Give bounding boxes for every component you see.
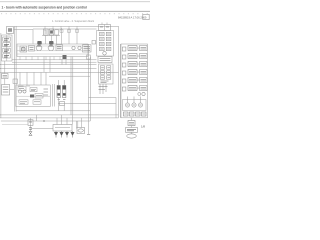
accumulator drain marks xyxy=(58,99,66,101)
bottom bus wire B2 xyxy=(0,117,119,119)
RB motor m3 mark xyxy=(139,104,141,106)
check valve block CV1 xyxy=(29,46,35,52)
Vs4 marks xyxy=(20,102,27,103)
RB bottom connector rect b2 xyxy=(130,112,135,116)
frame rail right third vertical xyxy=(115,98,117,118)
accumulator A1 gas cap xyxy=(57,86,60,90)
RB row r4 coil xyxy=(140,70,148,75)
header top rule xyxy=(0,1,150,3)
frame rail right inner vertical xyxy=(119,44,121,118)
RB row r3 coil xyxy=(140,62,148,67)
SB solenoid dark blob xyxy=(30,95,34,98)
drop wire d6 xyxy=(72,115,74,125)
bottom bus wire B1 xyxy=(0,114,119,116)
RB bottom connector rect b1 xyxy=(124,112,129,116)
tank symbol t1 xyxy=(54,132,58,136)
drop wire d3 xyxy=(56,118,58,125)
riser wires above stack xyxy=(102,23,107,25)
wire from B1 to main grid xyxy=(14,30,34,44)
K2 row a mark xyxy=(101,67,110,69)
riser wire R5 xyxy=(68,28,70,44)
mid horizontal line B xyxy=(89,97,117,99)
feeder wires into suspension block xyxy=(20,72,46,85)
riser R4 tick box xyxy=(60,30,63,33)
mid horizontal line A xyxy=(58,103,116,105)
wire stack bottom to L1 xyxy=(4,61,6,74)
center-right solenoid stack frame K1 xyxy=(97,31,114,57)
RB row r5 marks xyxy=(129,79,136,81)
left sensor cluster L1 box xyxy=(2,74,8,79)
svg-text:1/8: 1/8 xyxy=(141,124,145,128)
relief valve RV1 xyxy=(20,46,27,52)
suspension block SB frame xyxy=(16,85,51,107)
pilot port box left of stack xyxy=(92,41,96,45)
PS inner mark xyxy=(29,121,32,123)
RB row circle xyxy=(142,92,145,95)
K2 drop cluster marks xyxy=(99,87,108,90)
motor feed ticks xyxy=(128,97,141,103)
accumulator bottom wires xyxy=(59,98,64,111)
valve S4 spool marks xyxy=(4,56,9,57)
L2 valve marks xyxy=(3,87,9,92)
drop wire d5 xyxy=(66,118,68,125)
RB motor circle m3 xyxy=(138,103,142,107)
RB row r3 marks xyxy=(129,63,136,65)
RB motor m2 mark xyxy=(133,104,135,106)
center-right stack top box T1 xyxy=(99,25,111,31)
selector valve block SV1 xyxy=(83,45,92,52)
drop wire d7 xyxy=(76,121,78,128)
K1a mark xyxy=(100,33,110,35)
SB valve Vs4 xyxy=(19,100,28,104)
filter F1 feed wire xyxy=(30,130,32,132)
K2 bottom valve marks xyxy=(101,81,109,83)
RB row r2 coil marks xyxy=(141,55,147,57)
accumulator A1 bladder mark xyxy=(57,93,60,95)
manifold M1 left stack frame xyxy=(2,35,12,61)
frame rail mid inner vertical xyxy=(89,57,91,122)
filter F1 cross symbol xyxy=(29,132,32,136)
right chain ellipse RC3 xyxy=(127,134,137,138)
connector marks row xyxy=(124,113,145,115)
RB pilot column item c1 xyxy=(122,47,126,51)
L2 connecting wire xyxy=(10,89,15,91)
suspension block bottom wire xyxy=(16,110,91,112)
drop wire d1 xyxy=(30,118,32,128)
pilot valve mounting plate line xyxy=(42,35,60,37)
RB row r5 coil xyxy=(140,78,148,83)
SB valve Vs1 xyxy=(18,87,26,91)
small valve under PS xyxy=(29,128,32,130)
bus wire H2 xyxy=(0,64,97,66)
left edge stub wires xyxy=(0,65,1,115)
small valve box under accumulators xyxy=(60,102,65,106)
PV1 internal marks xyxy=(44,31,47,33)
K2 drop cluster below xyxy=(100,84,106,94)
SB pump circle Ps1 xyxy=(18,90,21,93)
left valve cluster L2 box xyxy=(2,85,10,96)
SB valve Vs2 xyxy=(30,88,37,92)
SB valve Vs5 xyxy=(33,100,41,104)
dark block under manifold xyxy=(63,55,67,59)
valve S3 spool marks xyxy=(4,50,9,51)
wire into pilot supply box xyxy=(2,124,28,126)
right chain wires xyxy=(131,118,133,134)
pilot valve PV2 dark core xyxy=(50,30,53,33)
gauge circle G2 xyxy=(78,46,81,49)
tank symbol t3 xyxy=(65,132,69,136)
J1 marks xyxy=(100,59,111,61)
RB row r4 coil marks xyxy=(141,71,147,73)
mid vertical connectors xyxy=(44,57,66,73)
check valve CV1 marks xyxy=(30,48,34,50)
RB row r1 coil xyxy=(140,46,148,51)
SB inner line xyxy=(16,95,51,97)
RB bottom connector rect b3 xyxy=(136,112,141,116)
K2 row c xyxy=(100,76,104,79)
SB top label marks xyxy=(18,85,31,87)
tank pump riser wire xyxy=(78,118,82,128)
right chain valve RC1 xyxy=(128,121,135,126)
valve S2 spool marks xyxy=(4,44,9,45)
RB valve row r1 body xyxy=(128,46,137,51)
pilot valve box PV2 xyxy=(49,29,54,35)
frame rail left outer vertical xyxy=(13,26,15,111)
rail junction box xyxy=(13,79,18,84)
accumulator rail vertical pair xyxy=(53,84,55,107)
manifold inner line upper xyxy=(17,50,88,52)
RB bottom connector rect b4 xyxy=(142,112,147,116)
comb tick connectors below manifold xyxy=(20,57,60,60)
tank pump box TP xyxy=(77,128,85,134)
RB row circle second xyxy=(138,93,141,96)
RB pilot column item c3 xyxy=(122,63,126,67)
mid rail foot mark xyxy=(87,133,90,135)
bus wire H1b xyxy=(12,61,97,63)
RB valve row r2 body xyxy=(128,54,137,59)
K1 bottom circle xyxy=(103,52,107,56)
accumulator A2 body xyxy=(63,86,66,98)
Vs5 marks xyxy=(34,101,40,103)
RB row r3 coil marks xyxy=(141,63,147,65)
valve symbol inside B1 xyxy=(8,28,12,32)
svg-text:1. Control valve - 2. Suspensi: 1. Control valve - 2. Suspension block xyxy=(52,20,95,23)
valve section S4 xyxy=(3,54,10,58)
RB motor circle m1 xyxy=(125,103,129,107)
RB pilot column item c5 xyxy=(122,79,126,83)
RB row r5 coil marks xyxy=(141,79,147,81)
Vs2 marks xyxy=(31,90,36,91)
RB valve row r5 body xyxy=(128,78,137,83)
right chain box RC2 xyxy=(126,128,138,133)
RB row r2 coil xyxy=(140,54,148,59)
K1c mark xyxy=(100,43,110,45)
pump circle P1 xyxy=(36,45,42,51)
gauge circle G1 xyxy=(72,46,75,49)
pump P1 top cap block xyxy=(37,41,41,45)
SB valve Vs3 xyxy=(35,94,43,99)
drop wire d2 xyxy=(36,115,38,121)
RV1 circle xyxy=(21,47,25,51)
wire from B1 down to left stack xyxy=(8,34,10,36)
frame rail mid outer vertical xyxy=(88,44,90,134)
valve section S3 xyxy=(3,48,10,52)
bus wire H3 xyxy=(0,68,97,70)
SB right port marks xyxy=(44,89,49,95)
return box inner mark xyxy=(55,127,70,129)
frame rail left inner vertical xyxy=(15,26,17,111)
RB valve row r3 body xyxy=(128,62,137,67)
solenoid valve row K1c xyxy=(100,42,105,45)
bus wire H1 xyxy=(12,59,97,61)
RB row r6 coil xyxy=(140,86,148,91)
frame rail right outer vertical xyxy=(118,26,120,118)
tick connectors on top bus xyxy=(45,26,77,31)
pump P2 dark cap xyxy=(49,45,54,46)
valve section S2 xyxy=(3,43,10,47)
junction box J1 below stack xyxy=(98,57,112,63)
pilot valve box PV3 xyxy=(55,30,59,35)
wire second top bus xyxy=(33,28,97,30)
check valve block CV2 xyxy=(56,45,63,51)
pump P1 dark cap xyxy=(37,45,42,46)
riser wire R4 xyxy=(61,28,63,44)
solenoid valve row K1b xyxy=(100,37,105,40)
riser R6 tick box xyxy=(76,30,79,33)
L1 drop wire xyxy=(4,79,6,85)
relief valve RV1 marks xyxy=(21,48,26,50)
accumulator A2 gas cap xyxy=(63,86,66,90)
pilot supply box PS xyxy=(28,120,33,126)
K2 row b xyxy=(100,71,104,74)
RB row r4 marks xyxy=(129,71,136,73)
K2 row a xyxy=(100,66,104,69)
drop wire d4 xyxy=(61,115,63,125)
RB motor circle m2 xyxy=(132,103,136,107)
valve block B1 top-left xyxy=(7,27,14,34)
RB pilot column item c4 xyxy=(122,71,126,75)
wire left page edge vertical xyxy=(0,33,2,118)
riser wire R6 xyxy=(76,28,78,44)
svg-text:1 - boom with automatic suspen: 1 - boom with automatic suspension and j… xyxy=(2,5,87,9)
CV2 marks xyxy=(57,47,62,49)
rail tick box on mid rail xyxy=(87,55,91,59)
accumulator A2 bladder mark xyxy=(63,93,66,95)
tank pump ellipse xyxy=(78,129,83,132)
L1 marks xyxy=(3,76,7,78)
bus wire H5 short xyxy=(49,75,90,77)
RB row r6 coil marks xyxy=(141,87,147,89)
tank stems xyxy=(56,131,73,138)
RB valve row r4 body xyxy=(128,70,137,75)
manifold inner line lower xyxy=(17,53,88,55)
accumulator A1 body xyxy=(57,86,60,98)
selector valve SV1 marks xyxy=(84,47,91,51)
header right revision box xyxy=(143,14,149,19)
K2 row c mark xyxy=(101,77,110,79)
tank symbol t2 xyxy=(60,132,64,136)
left stack center rail xyxy=(6,35,8,61)
T1 divider xyxy=(104,25,106,31)
T1 marks xyxy=(100,26,109,28)
valve S1 spool marks xyxy=(4,39,9,40)
manifold inner top line xyxy=(17,45,88,47)
tank symbol t4 xyxy=(71,132,75,136)
manifold return box xyxy=(53,125,72,132)
accumulator feed wires xyxy=(59,80,64,86)
K1d mark xyxy=(100,48,110,50)
RB valve row r6 body xyxy=(128,86,137,91)
solenoid valve row K1a xyxy=(100,32,105,35)
RC1 marks xyxy=(129,122,134,124)
RB row spring ticks xyxy=(137,48,140,88)
RB row r2 marks xyxy=(129,55,136,57)
Vs3 marks xyxy=(36,95,42,97)
bottom connecting wire xyxy=(31,127,54,129)
RB pilot column item c6 xyxy=(122,87,126,91)
riser wires from pilot valves to manifold xyxy=(46,35,57,44)
SB pump circle Ps2 xyxy=(23,90,26,93)
wire top horizontal bus xyxy=(14,25,118,27)
RB motor m1 mark xyxy=(126,104,128,106)
junction tick on bus xyxy=(43,120,45,122)
RB row r1 marks xyxy=(129,47,136,49)
pump P2 top cap block xyxy=(49,41,53,45)
RC2 marks xyxy=(127,129,136,131)
K2 row b mark xyxy=(101,72,110,74)
riser R5 tick box xyxy=(68,30,71,33)
solenoid valve row K1d xyxy=(100,47,105,50)
bus wire H4 xyxy=(0,71,119,73)
pump circle P2 xyxy=(48,45,54,51)
bottom bus wire B3 xyxy=(1,120,90,122)
header main rule xyxy=(0,10,150,12)
main control manifold MCV frame xyxy=(17,44,88,57)
right valve bank RB frame xyxy=(121,44,148,118)
pilot valve box PV1 xyxy=(44,29,49,35)
mid vertical pair left xyxy=(71,57,73,115)
Vs1 marks xyxy=(19,88,24,90)
RB pilot column item c2 xyxy=(122,55,126,59)
lower solenoid stack K2 frame xyxy=(99,64,114,84)
RB row r1 coil marks xyxy=(141,47,147,49)
RB motor sub-box xyxy=(123,100,147,111)
K1b mark xyxy=(100,38,110,40)
header dotted rule xyxy=(1,13,149,15)
valve section S1 xyxy=(3,37,10,41)
RB row r6 marks xyxy=(129,87,136,89)
